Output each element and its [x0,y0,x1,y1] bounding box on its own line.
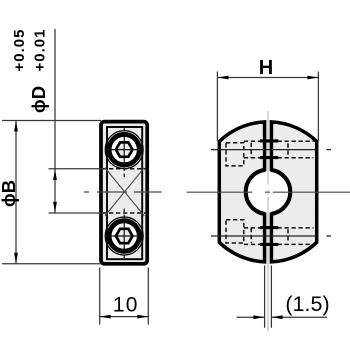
svg-text:ϕD: ϕD [28,86,49,113]
svg-text:+0.01: +0.01 [32,29,49,72]
svg-text:+0.05: +0.05 [11,29,28,72]
svg-text:ϕB: ϕB [0,180,19,207]
svg-text:H: H [259,57,273,79]
svg-text:10: 10 [113,293,139,316]
svg-text:(1.5): (1.5) [285,292,329,316]
